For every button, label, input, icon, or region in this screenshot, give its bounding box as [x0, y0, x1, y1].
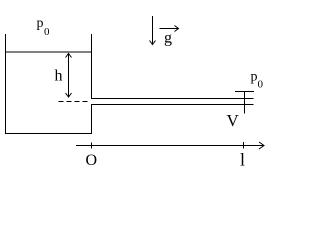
svg-text:p: p [251, 70, 258, 85]
gravity down arrow [150, 16, 156, 45]
pipe top wall [92, 98, 254, 100]
label p0 above tank [37, 16, 51, 38]
dashed pipe-axis level line inside tank [59, 101, 91, 103]
svg-text:l: l [240, 150, 245, 170]
piston bar at pipe outlet [244, 92, 246, 114]
piston cap line at pipe outlet [235, 91, 254, 93]
label p0 at outlet [251, 70, 264, 91]
tank bottom [5, 133, 92, 135]
svg-text:0: 0 [44, 26, 50, 38]
axis tick at l [243, 142, 245, 149]
svg-text:p: p [37, 16, 44, 31]
svg-text:h: h [55, 68, 63, 85]
svg-text:V: V [227, 111, 240, 130]
tank right wall upper (above pipe opening) [91, 34, 93, 99]
svg-text:O: O [86, 152, 98, 169]
svg-text:0: 0 [258, 79, 264, 91]
water surface line [5, 51, 92, 53]
g vector overbar arrow [160, 26, 179, 32]
h dimension arrow (double-headed, vertical) [66, 54, 72, 98]
tank left wall [5, 34, 7, 134]
x axis line [76, 142, 264, 149]
svg-text:g: g [164, 30, 172, 47]
axis tick at O [91, 143, 93, 149]
tank right wall lower (below pipe opening) [91, 104, 93, 134]
pipe bottom wall [92, 104, 254, 106]
